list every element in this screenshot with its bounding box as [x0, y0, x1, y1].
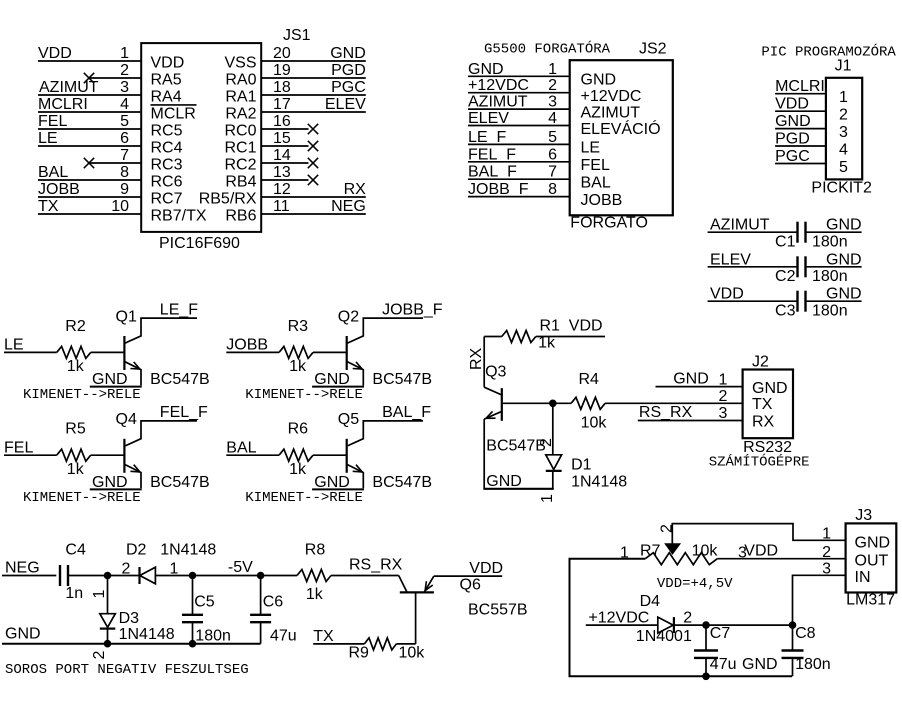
svg-text:RC5: RC5 — [151, 122, 183, 139]
svg-text:1: 1 — [822, 525, 831, 542]
transistor Q2 collector — [347, 318, 423, 343]
svg-text:180n: 180n — [795, 656, 831, 673]
svg-text:180n: 180n — [195, 627, 231, 644]
svg-text:C5: C5 — [194, 594, 215, 611]
wire D1 cathode — [552, 403, 554, 455]
svg-text:1N4148: 1N4148 — [160, 542, 216, 559]
svg-text:RX: RX — [344, 181, 367, 198]
transistor Q5 emitter — [347, 465, 363, 489]
wire R2 to base — [91, 351, 125, 353]
emitter arrow Q2 — [353, 368, 363, 371]
capacitor C1 — [796, 222, 798, 243]
wire JS1 pin 6 — [38, 145, 141, 147]
svg-text:17: 17 — [273, 96, 291, 113]
svg-text:2: 2 — [822, 544, 831, 561]
svg-text:1k: 1k — [306, 586, 324, 603]
svg-text:BC547B: BC547B — [372, 474, 432, 491]
svg-text:47u: 47u — [710, 656, 737, 673]
svg-text:13: 13 — [273, 164, 291, 181]
wire D3 to GND rail — [107, 629, 109, 644]
IC body JS1 — [141, 43, 261, 232]
wire JS2 pin 3 — [468, 108, 570, 110]
svg-text:OUT: OUT — [855, 552, 889, 569]
svg-text:VSS: VSS — [224, 54, 256, 71]
wire JS1 pin 8 — [38, 179, 141, 181]
emitter arrow Q6 (PNP) — [425, 581, 426, 590]
svg-text:SOROS PORT NEGATIV FESZULTSEG: SOROS PORT NEGATIV FESZULTSEG — [5, 662, 249, 678]
svg-text:TX: TX — [752, 396, 773, 413]
svg-text:FORGATO: FORGATO — [570, 215, 648, 232]
svg-text:JOBB_F: JOBB_F — [468, 181, 529, 198]
wire emitter to GND — [483, 419, 485, 489]
svg-text:NEG: NEG — [331, 198, 366, 215]
transistor Q3 base bar — [501, 388, 503, 421]
svg-text:RC7: RC7 — [151, 190, 183, 207]
transistor Q4 collector — [125, 421, 197, 446]
svg-text:GND: GND — [581, 72, 617, 89]
svg-text:RX: RX — [468, 347, 485, 370]
no-connect X pin 7 — [84, 158, 94, 168]
svg-text:JS1: JS1 — [283, 27, 311, 44]
svg-text:14: 14 — [273, 147, 291, 164]
svg-text:C6: C6 — [263, 594, 284, 611]
wire D1 anode — [552, 471, 554, 489]
wire JS2 pin 1 — [468, 75, 570, 77]
svg-text:3: 3 — [548, 94, 557, 111]
svg-text:10k: 10k — [581, 414, 608, 431]
wire J2 pin 3 — [638, 420, 743, 422]
wire R3 to base — [313, 351, 347, 353]
svg-text:PGC: PGC — [775, 148, 810, 165]
emitter arrow Q1 — [130, 368, 140, 371]
svg-text:TX: TX — [313, 628, 334, 645]
svg-text:D4: D4 — [640, 593, 661, 610]
svg-text:GND: GND — [92, 371, 128, 388]
svg-text:C7: C7 — [710, 625, 731, 642]
svg-text:1: 1 — [120, 45, 129, 62]
svg-text:Q2: Q2 — [338, 308, 359, 325]
resistor R3 — [279, 346, 313, 358]
svg-text:RC3: RC3 — [151, 156, 183, 173]
wire JS1 pin 1 — [38, 60, 141, 62]
wire node C to R8 — [261, 575, 297, 577]
svg-text:1: 1 — [539, 494, 556, 503]
no-connect X pin 13 — [308, 175, 318, 185]
wire NEG to C4 — [2, 575, 56, 577]
wire JS1 pin 20 — [261, 60, 366, 62]
svg-text:RB5/RX: RB5/RX — [199, 190, 257, 207]
transistor Q6 collector — [399, 576, 407, 593]
wire J1 pin 4 — [775, 145, 826, 147]
svg-text:LE: LE — [581, 140, 601, 157]
svg-text:IN: IN — [855, 569, 871, 586]
svg-text:FEL_F: FEL_F — [468, 146, 516, 163]
svg-text:2: 2 — [122, 561, 131, 578]
svg-text:JOBB_F: JOBB_F — [382, 301, 443, 318]
wire C4 to node A — [68, 575, 140, 577]
svg-text:1n: 1n — [65, 585, 83, 602]
connector J1 / PICKIT2 block — [761, 43, 896, 197]
junction C7 bottom — [702, 673, 710, 681]
wire JS1 pin 14 (n.c.) — [261, 162, 308, 164]
junction node B — [189, 572, 197, 580]
svg-text:3: 3 — [718, 405, 727, 422]
svg-text:LE_F: LE_F — [468, 129, 506, 146]
transistor Q5 base bar — [346, 439, 348, 473]
RS232 receive block Q3 — [468, 318, 743, 504]
junction node — [549, 400, 557, 408]
driver block Q1 (LE) — [4, 301, 210, 403]
svg-text:180n: 180n — [812, 268, 848, 285]
svg-text:VDD: VDD — [569, 318, 603, 335]
wire JS2 pin 5 — [468, 143, 570, 145]
svg-text:ELEVÁCIÓ: ELEVÁCIÓ — [581, 119, 661, 138]
resistor R2 — [57, 346, 91, 358]
power supply block LM317 — [570, 507, 897, 680]
svg-text:R6: R6 — [288, 421, 309, 438]
connector JS1 / PIC16F690 block — [38, 27, 366, 252]
connector J2 / RS232 block — [638, 354, 810, 471]
svg-text:C3: C3 — [775, 303, 796, 320]
svg-text:6: 6 — [548, 146, 557, 163]
svg-text:BC547B: BC547B — [150, 474, 210, 491]
svg-text:2: 2 — [538, 438, 555, 447]
wire JS1 pin 2 (n.c.) — [88, 77, 141, 79]
wire JS2 pin 2 — [468, 92, 570, 94]
svg-text:RB6: RB6 — [225, 207, 256, 224]
svg-text:RS_RX: RS_RX — [349, 557, 403, 574]
svg-text:BC547B: BC547B — [150, 371, 210, 388]
diode D4 — [658, 617, 673, 633]
wire J1 pin 3 — [775, 128, 826, 130]
wire J1 pin 5 — [775, 163, 826, 165]
svg-text:RC0: RC0 — [224, 122, 256, 139]
wire R7 to J3 OUT — [717, 558, 845, 560]
wire ELEV to C2 — [708, 266, 798, 268]
wire JS2 pin 7 — [468, 178, 570, 180]
svg-text:FEL_F: FEL_F — [160, 404, 208, 421]
svg-text:GND: GND — [775, 113, 811, 130]
wire R1 to VDD — [536, 336, 605, 338]
svg-text:4: 4 — [548, 110, 557, 127]
no-connect X pin 14 — [308, 158, 318, 168]
svg-text:1k: 1k — [289, 358, 307, 375]
transistor Q1 base bar — [123, 336, 125, 370]
svg-text:7: 7 — [120, 147, 129, 164]
svg-text:GND: GND — [742, 656, 778, 673]
svg-text:10: 10 — [111, 198, 129, 215]
svg-text:VDD: VDD — [744, 543, 778, 560]
svg-text:RB4: RB4 — [225, 173, 256, 190]
wire D3 vertical — [107, 576, 109, 614]
svg-text:12: 12 — [273, 181, 291, 198]
svg-text:J3: J3 — [855, 507, 872, 524]
wire VDD to C3 — [708, 300, 798, 302]
svg-text:R2: R2 — [65, 318, 86, 335]
svg-text:6: 6 — [120, 130, 129, 147]
wire JS1 pin 13 (n.c.) — [261, 179, 308, 181]
wiper of R7 — [666, 544, 680, 554]
svg-text:10k: 10k — [692, 543, 719, 560]
wire FEL input — [4, 454, 57, 456]
wire C1 to GND — [806, 231, 862, 233]
svg-text:C8: C8 — [795, 625, 816, 642]
wire D2 to node B — [155, 575, 262, 577]
svg-text:KIMENET-->RELE: KIMENET-->RELE — [245, 490, 363, 506]
svg-text:AZIMUT: AZIMUT — [468, 94, 528, 111]
svg-text:Q5: Q5 — [338, 411, 359, 428]
wire JS1 pin 15 (n.c.) — [261, 145, 308, 147]
svg-text:1: 1 — [839, 89, 848, 106]
resistor R4 — [553, 402, 571, 404]
wire J1 pin 1 — [775, 93, 826, 95]
wire JS1 pin 17 — [261, 111, 366, 113]
svg-text:+12VDC: +12VDC — [588, 610, 649, 627]
svg-text:FEL: FEL — [38, 113, 67, 130]
svg-text:TX: TX — [38, 198, 59, 215]
svg-text:C2: C2 — [775, 268, 796, 285]
svg-text:BAL: BAL — [38, 164, 68, 181]
transistor Q1 collector — [125, 318, 197, 343]
transistor Q4 base bar — [123, 439, 125, 473]
diode D2 (points left) — [138, 567, 140, 584]
junction C8 top — [789, 621, 797, 629]
wire RX vertical — [483, 337, 485, 388]
svg-text:AZIMUT: AZIMUT — [581, 104, 641, 121]
GND rail — [483, 488, 553, 490]
wire R9 to base — [396, 643, 415, 645]
emitter arrow Q3 — [486, 411, 493, 418]
wire TX to R9 — [313, 643, 364, 645]
svg-text:GND: GND — [486, 473, 522, 490]
wire AZIMUT to C1 — [708, 231, 798, 233]
svg-text:Q3: Q3 — [485, 364, 506, 381]
svg-text:2: 2 — [91, 651, 108, 660]
emitter arrow Q4 — [130, 470, 140, 473]
svg-text:1: 1 — [548, 61, 557, 78]
svg-text:PGD: PGD — [331, 62, 366, 79]
svg-text:15: 15 — [273, 130, 291, 147]
svg-text:JOBB: JOBB — [581, 192, 623, 209]
no-connect X pin 16 — [308, 124, 318, 134]
wire JS1 pin 5 — [38, 128, 141, 130]
svg-text:RS_RX: RS_RX — [639, 404, 693, 421]
svg-text:D3: D3 — [119, 610, 140, 627]
svg-text:3: 3 — [120, 79, 129, 96]
svg-text:BAL_F: BAL_F — [468, 164, 517, 181]
svg-text:LE_F: LE_F — [160, 301, 198, 318]
svg-text:C4: C4 — [65, 542, 86, 559]
svg-text:RA2: RA2 — [225, 105, 256, 122]
svg-text:VDD: VDD — [775, 96, 809, 113]
transistor Q2 base bar — [346, 336, 348, 370]
capacitor C8 — [792, 625, 794, 651]
svg-text:180n: 180n — [812, 234, 848, 251]
svg-text:1N4148: 1N4148 — [571, 473, 627, 490]
svg-text:RC4: RC4 — [151, 139, 183, 156]
svg-text:16: 16 — [273, 113, 291, 130]
svg-text:R3: R3 — [288, 318, 309, 335]
svg-text:PICKIT2: PICKIT2 — [811, 180, 872, 197]
svg-text:AZIMUT: AZIMUT — [710, 217, 770, 234]
svg-text:BAL: BAL — [581, 175, 611, 192]
connector body J1 — [826, 78, 862, 180]
svg-text:5: 5 — [548, 129, 557, 146]
svg-text:J2: J2 — [752, 354, 769, 371]
svg-text:1: 1 — [620, 545, 629, 562]
wire LE input — [4, 351, 57, 353]
svg-text:PGC: PGC — [331, 79, 366, 96]
wire J2 pin 1 — [656, 386, 743, 388]
transistor Q1 emitter — [125, 362, 141, 386]
svg-text:2: 2 — [839, 107, 848, 124]
svg-text:19: 19 — [273, 62, 291, 79]
svg-text:SZÁMÍTÓGÉPRE: SZÁMÍTÓGÉPRE — [709, 453, 810, 471]
svg-text:8: 8 — [120, 164, 129, 181]
svg-text:Q1: Q1 — [116, 308, 137, 325]
svg-text:BAL_F: BAL_F — [382, 404, 431, 421]
svg-text:10k: 10k — [399, 645, 426, 662]
driver block Q5 (BAL) — [226, 404, 432, 506]
svg-text:KIMENET-->RELE: KIMENET-->RELE — [23, 490, 141, 506]
svg-text:RC1: RC1 — [224, 139, 256, 156]
no-connect X pin 2 — [84, 73, 94, 83]
svg-text:GND: GND — [468, 61, 504, 78]
svg-text:5: 5 — [839, 159, 848, 176]
svg-text:VDD: VDD — [151, 54, 185, 71]
svg-text:JOBB: JOBB — [226, 337, 268, 354]
svg-text:1k: 1k — [289, 461, 307, 478]
wire C2 to GND — [806, 266, 862, 268]
wire J1 pin 2 — [775, 110, 826, 112]
wire JS2 pin 8 — [468, 196, 570, 198]
driver block Q4 (FEL) — [4, 404, 210, 506]
svg-text:9: 9 — [120, 181, 129, 198]
capacitor C5 — [192, 576, 194, 615]
svg-text:MCLRI: MCLRI — [38, 96, 88, 113]
wire JS1 pin 11 — [261, 213, 366, 215]
svg-text:R7: R7 — [640, 543, 661, 560]
svg-text:GND: GND — [314, 474, 350, 491]
wire JS2 pin 6 — [468, 161, 570, 163]
transistor Q3 base wire — [502, 402, 553, 404]
resistor R8 — [297, 570, 331, 582]
resistor R1 — [502, 331, 536, 343]
wire emitter to GND rail — [312, 488, 364, 490]
svg-text:KIMENET-->RELE: KIMENET-->RELE — [245, 387, 363, 403]
svg-text:1k: 1k — [67, 358, 85, 375]
svg-text:1: 1 — [718, 371, 727, 388]
wire C8 to J3 IN — [793, 575, 846, 625]
svg-text:GND: GND — [92, 474, 128, 491]
svg-text:JS2: JS2 — [639, 41, 667, 58]
svg-text:ELEV: ELEV — [325, 96, 366, 113]
wire +12VDC to D4 — [586, 624, 658, 626]
svg-text:1k: 1k — [538, 335, 556, 352]
svg-text:RC2: RC2 — [224, 156, 256, 173]
transistor Q6 base bar — [400, 591, 434, 593]
capacitor C7 — [705, 625, 707, 651]
wire Q6 base vertical — [415, 592, 417, 644]
svg-text:VDD: VDD — [469, 560, 503, 577]
svg-text:LE: LE — [4, 337, 24, 354]
svg-text:BAL: BAL — [226, 440, 256, 457]
junction C7 top — [702, 621, 710, 629]
resistor R9 — [364, 638, 396, 650]
connector body JS2 — [570, 60, 673, 215]
junction on GND rail (C5) — [189, 640, 197, 648]
capacitor C4 — [59, 565, 61, 586]
emitter arrow Q5 — [353, 470, 363, 473]
svg-text:D2: D2 — [126, 542, 147, 559]
svg-text:FEL: FEL — [581, 157, 610, 174]
svg-text:BC547B: BC547B — [486, 438, 546, 455]
connector JS2 / FORGATO block — [468, 40, 673, 232]
GND rail — [2, 643, 261, 645]
svg-text:R1: R1 — [540, 318, 561, 335]
decoupling capacitors C1-C3 block — [708, 217, 862, 320]
wire left rail — [570, 559, 793, 677]
svg-text:180n: 180n — [812, 303, 848, 320]
svg-text:R9: R9 — [349, 645, 370, 662]
wire R1 top — [484, 336, 502, 338]
svg-text:RA0: RA0 — [225, 71, 256, 88]
transistor Q3 collector — [484, 387, 501, 394]
capacitor C2 — [796, 256, 798, 277]
wire JS1 pin 3 — [38, 94, 141, 96]
svg-text:3: 3 — [839, 124, 848, 141]
svg-text:GND: GND — [855, 535, 891, 552]
wire JS1 pin 7 (n.c.) — [88, 162, 141, 164]
transistor Q4 emitter — [125, 465, 141, 489]
svg-text:PGD: PGD — [775, 131, 810, 148]
potentiometer R7 — [645, 553, 717, 565]
capacitor C6 — [260, 576, 262, 615]
wire JS1 pin 4 — [38, 111, 141, 113]
svg-text:7: 7 — [548, 164, 557, 181]
connector body J2 — [743, 370, 793, 439]
junction on GND rail (D3) — [104, 640, 112, 648]
wire BAL input — [226, 454, 279, 456]
svg-text:G5500 FORGATÓRA: G5500 FORGATÓRA — [484, 40, 611, 58]
svg-text:4: 4 — [120, 96, 129, 113]
svg-text:MCLR: MCLR — [151, 105, 196, 122]
svg-text:GND: GND — [330, 45, 366, 62]
svg-text:GND: GND — [5, 626, 41, 643]
svg-text:GND: GND — [673, 371, 709, 388]
svg-text:+12VDC: +12VDC — [581, 88, 642, 105]
wire JS1 pin 19 — [261, 77, 366, 79]
wire R5 to base — [91, 454, 125, 456]
svg-text:R8: R8 — [305, 542, 326, 559]
svg-text:VDD=+4,5V: VDD=+4,5V — [657, 576, 733, 592]
svg-text:MCLRI: MCLRI — [775, 78, 825, 95]
svg-text:RA1: RA1 — [225, 88, 256, 105]
svg-text:GND: GND — [752, 380, 788, 397]
svg-text:5: 5 — [120, 113, 129, 130]
svg-text:JOBB: JOBB — [38, 181, 80, 198]
no-connect X pin 15 — [308, 141, 318, 151]
svg-text:C1: C1 — [775, 234, 796, 251]
junction node A — [104, 572, 112, 580]
svg-text:4: 4 — [839, 142, 848, 159]
wire C3 to GND — [806, 300, 862, 302]
svg-text:NEG: NEG — [5, 560, 40, 577]
wire emitter to GND rail — [90, 488, 142, 490]
transistor Q2 emitter — [347, 362, 363, 386]
resistor R6 — [279, 449, 313, 461]
svg-text:GND: GND — [826, 217, 862, 234]
